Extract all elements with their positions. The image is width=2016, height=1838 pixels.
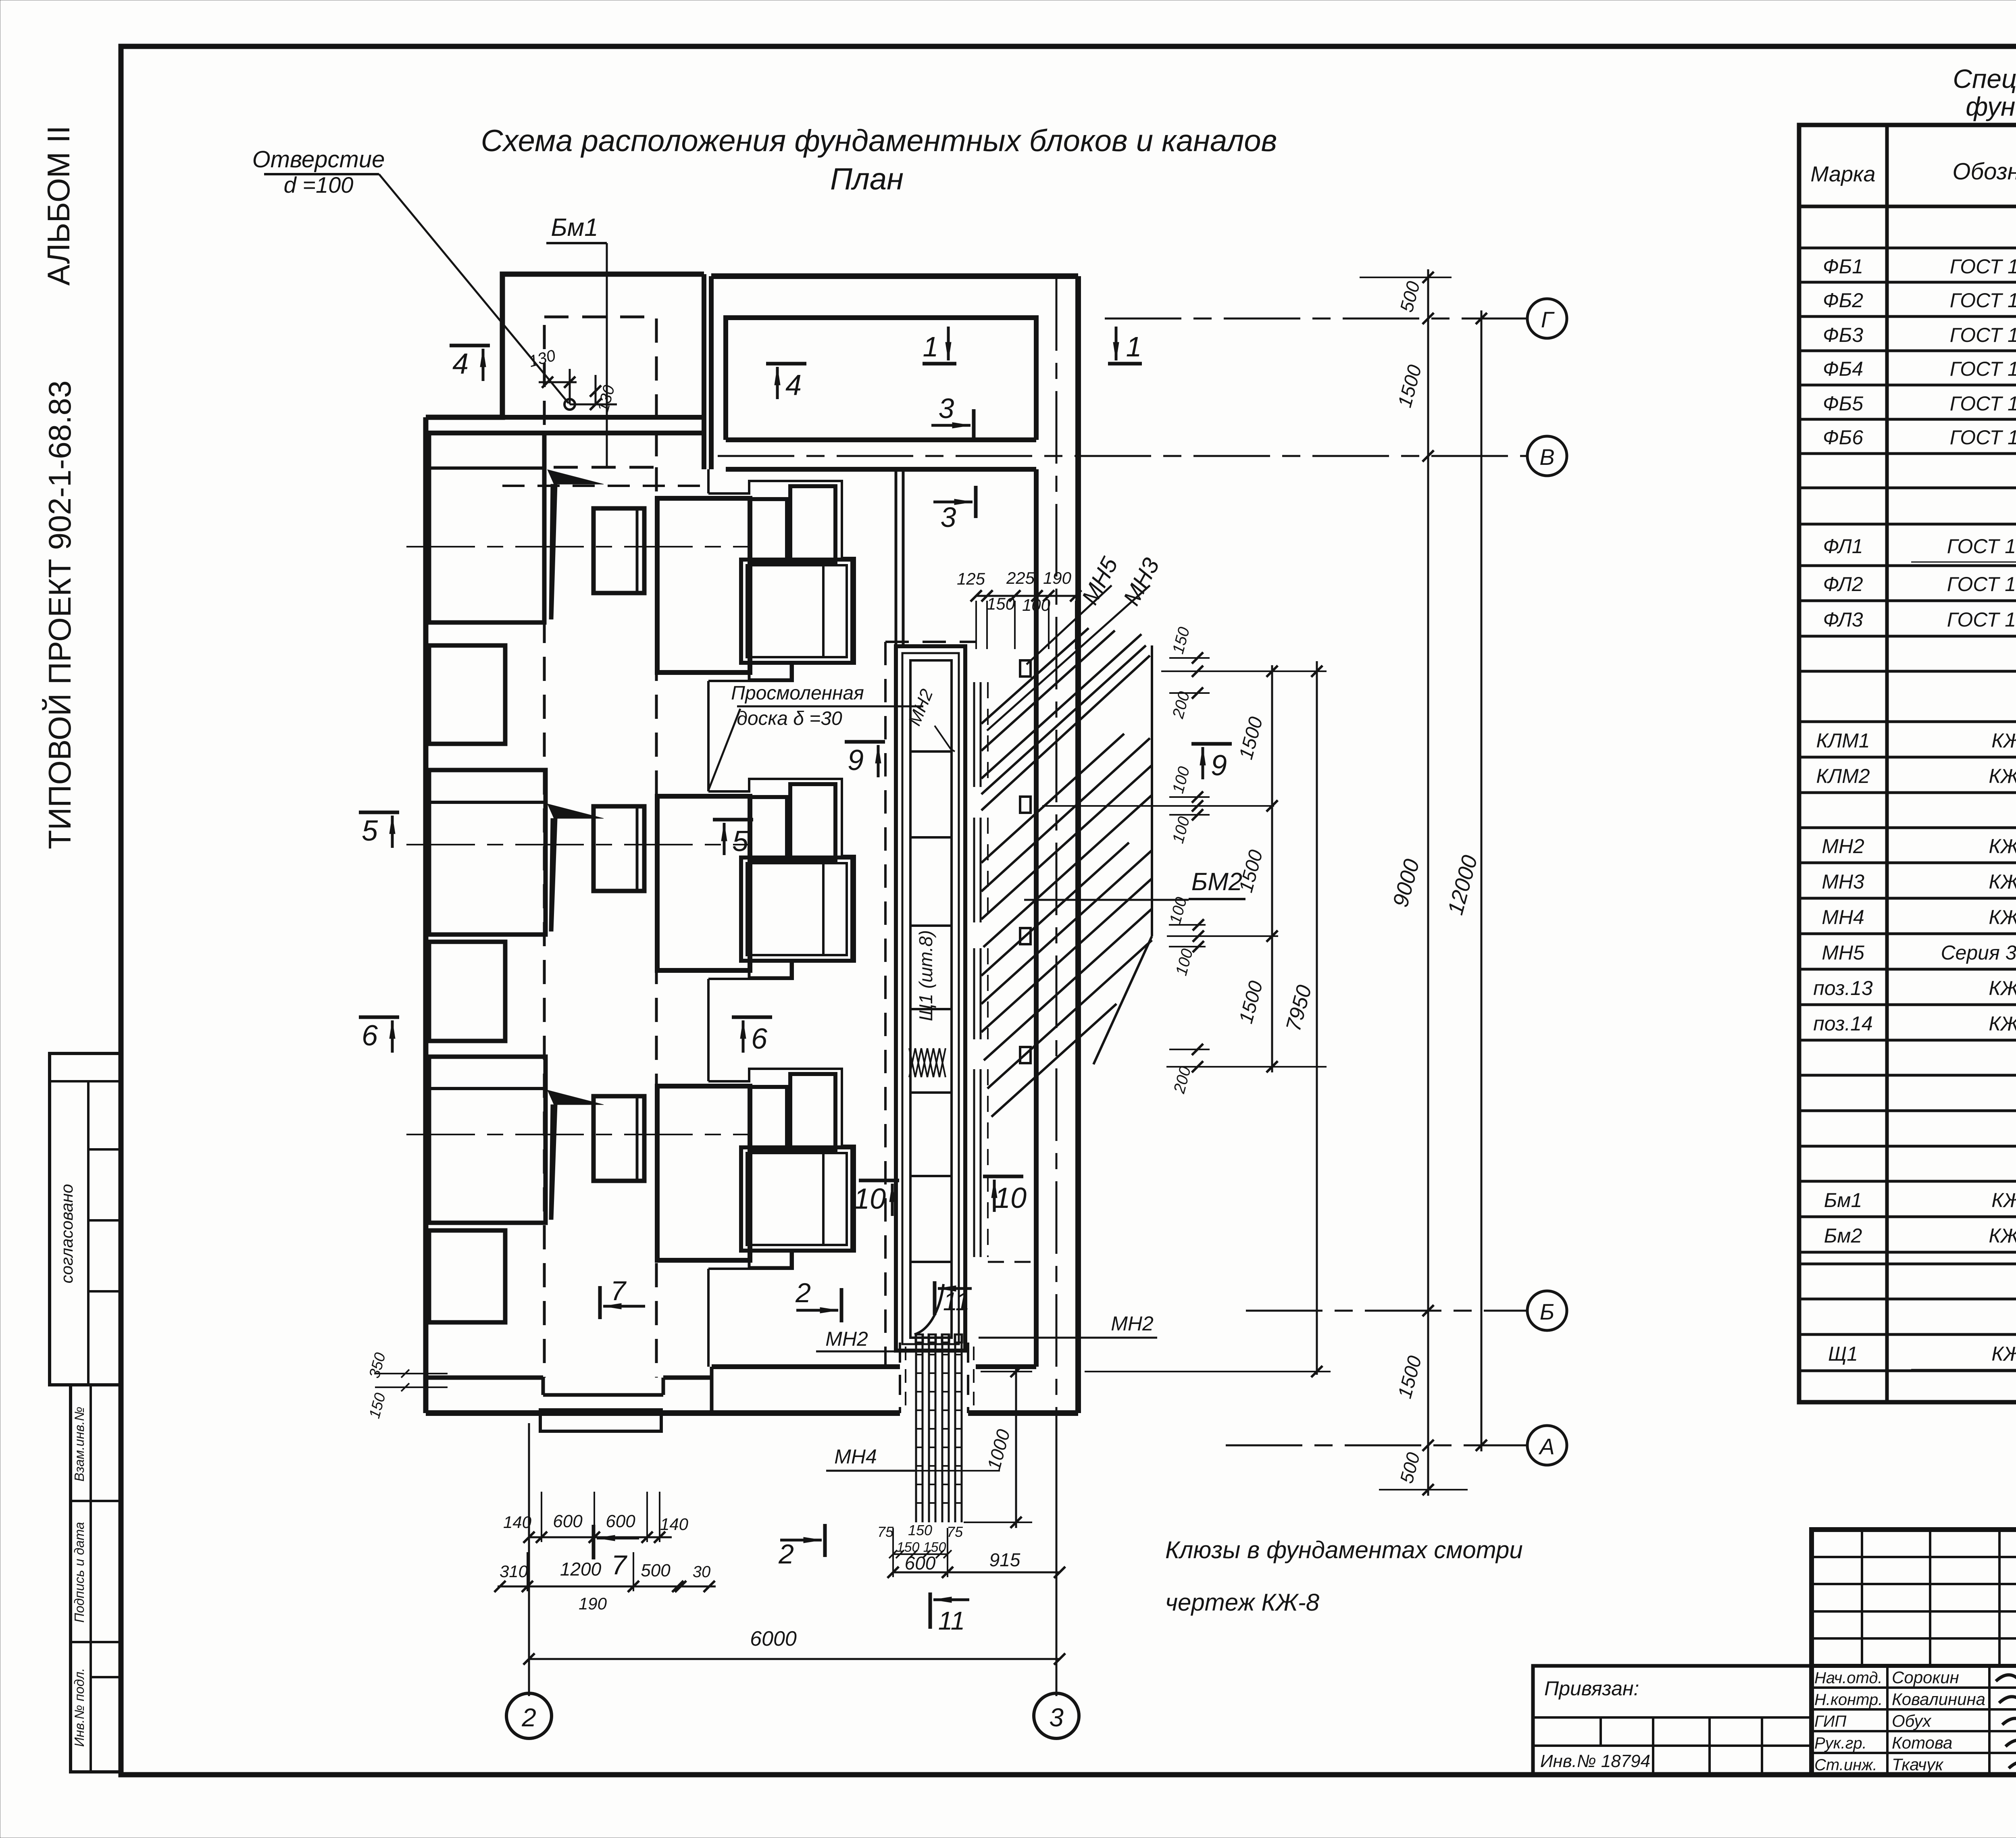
section mark 11 lower (929, 1592, 932, 1629)
axis line B (1246, 1310, 1527, 1312)
svg-text:2: 2 (795, 1278, 811, 1308)
title block upper-left revision grid (1812, 1556, 2016, 1558)
svg-text:75: 75 (877, 1524, 894, 1540)
approval stamp (soglasovano) (50, 1053, 121, 1385)
MN3 callout leader (987, 585, 1150, 731)
section mark 9 (845, 740, 885, 744)
svg-text:А: А (1538, 1434, 1554, 1459)
svg-text:КЛМ1: КЛМ1 (1816, 729, 1870, 752)
svg-text:Отверстие: Отверстие (252, 146, 385, 173)
axis line G (1105, 318, 1527, 320)
hall inner bottom wall (712, 1364, 900, 1369)
svg-text:150: 150 (987, 594, 1015, 613)
svg-text:225: 225 (1006, 568, 1035, 587)
svg-text:КЖ - 19: КЖ - 19 (1989, 870, 2016, 893)
svg-text:КЖ - 19: КЖ - 19 (1989, 1012, 2016, 1035)
svg-text:ГОСТ 13580 - 80: ГОСТ 13580 - 80 (1947, 535, 2016, 558)
svg-text:КЖ -17: КЖ -17 (1991, 1189, 2016, 1211)
small foot block (749, 663, 791, 680)
machine hall inner bottom line (426, 1376, 543, 1380)
svg-text:125: 125 (957, 569, 985, 588)
svg-text:150: 150 (897, 1540, 920, 1555)
axis line 3 (1056, 278, 1058, 1413)
axis line V (718, 455, 1527, 457)
svg-text:ГОСТ 13580 - 80: ГОСТ 13580 - 80 (1947, 573, 2016, 595)
chain 1500x3 (1271, 665, 1273, 1072)
hole symbol (564, 399, 575, 410)
dim 1000 (1015, 1369, 1017, 1528)
svg-text:600: 600 (606, 1511, 635, 1531)
svg-text:2: 2 (521, 1703, 536, 1732)
axis line 2 (528, 1423, 530, 1696)
svg-text:Схема расположения фундамент: Схема расположения фундаментных блоков и… (481, 124, 1277, 158)
svg-text:АЛЬБОМ II: АЛЬБОМ II (41, 125, 76, 285)
section mark 10 (983, 1175, 1023, 1178)
hole position dims 130x130 (569, 369, 571, 404)
svg-text:План: План (830, 162, 904, 196)
bearing block with liner (741, 560, 852, 663)
svg-text:6000: 6000 (750, 1627, 797, 1651)
svg-text:Бм1: Бм1 (1824, 1189, 1862, 1211)
svg-text:КЖ - 19: КЖ - 19 (1989, 835, 2016, 858)
binding table (privyazan) (1533, 1666, 1812, 1775)
svg-text:фундаментных блоков и канало: фундаментных блоков и каналов (1966, 92, 2016, 121)
building outer bottom wall (426, 1410, 900, 1416)
svg-text:ФБ6: ФБ6 (1823, 426, 1863, 449)
svg-text:Рук.гр.: Рук.гр. (1814, 1734, 1867, 1752)
right chain 500/1500/9000/1500/500 (1427, 269, 1429, 1496)
svg-text:Клюзы в фундаментах смотри: Клюзы в фундаментах смотри (1165, 1536, 1523, 1563)
svg-text:ФЛ1: ФЛ1 (1823, 535, 1863, 558)
svg-text:Обух: Обух (1892, 1711, 1932, 1730)
svg-text:600: 600 (905, 1553, 936, 1574)
svg-text:ФБ2: ФБ2 (1823, 289, 1863, 312)
right chain 12000 (1481, 310, 1483, 1451)
machine foundation left block (axis y=2814) (429, 1057, 546, 1223)
svg-text:МН2: МН2 (825, 1328, 868, 1350)
svg-text:Котова: Котова (1892, 1733, 1952, 1752)
NW room bottom wall line (502, 415, 704, 420)
svg-text:2: 2 (778, 1539, 794, 1569)
axis circle B (1527, 1291, 1567, 1330)
svg-text:Нач.отд.: Нач.отд. (1814, 1669, 1883, 1687)
inventory strip (vzam/podpis/inv) (71, 1385, 121, 1772)
axis circle 3 (1034, 1693, 1079, 1738)
hall right inner wall (1034, 469, 1039, 1367)
svg-text:10: 10 (994, 1182, 1027, 1214)
central machine block (657, 498, 750, 672)
formwork wedge (548, 470, 604, 484)
upper right block (790, 486, 835, 562)
svg-text:1200: 1200 (560, 1559, 602, 1580)
svg-text:ФБ1: ФБ1 (1823, 255, 1863, 278)
svg-text:Ст.инж.: Ст.инж. (1814, 1756, 1877, 1774)
machine hall bottom ledge (710, 1367, 714, 1413)
machine hall top wall inner line (426, 431, 704, 435)
formwork wedge (548, 804, 604, 818)
svg-text:ГИП: ГИП (1814, 1713, 1847, 1730)
svg-text:Обозначение: Обозначение (1952, 158, 2016, 185)
svg-text:3: 3 (941, 502, 956, 533)
svg-text:КЛМ2: КЛМ2 (1816, 765, 1870, 787)
machine centre line (406, 844, 748, 845)
svg-text:100: 100 (1022, 595, 1051, 614)
svg-text:Сорокин: Сорокин (1892, 1668, 1959, 1687)
section mark 1 (923, 362, 956, 366)
title block signature rows (1812, 1686, 2016, 1689)
pit edge connectors between groups (707, 469, 710, 493)
section mark 4 (450, 344, 490, 348)
svg-text:140: 140 (503, 1513, 532, 1532)
svg-text:ГОСТ 13579 -78: ГОСТ 13579 -78 (1950, 255, 2016, 278)
small foot block (749, 1251, 791, 1268)
svg-text:ТИПОВОЙ ПРОЕКТ 902-1-68.83: ТИПОВОЙ ПРОЕКТ 902-1-68.83 (42, 381, 77, 849)
specification table grid (1799, 125, 2016, 1402)
duct walls above channel (895, 469, 898, 646)
svg-text:ФЛ2: ФЛ2 (1823, 573, 1863, 595)
section mark 6 (732, 1016, 772, 1019)
upper right block (790, 784, 835, 860)
dashed step at strip bottom (988, 1261, 1032, 1263)
svg-text:ФБ5: ФБ5 (1823, 392, 1863, 415)
channel outer wall (896, 646, 965, 1351)
svg-text:7: 7 (611, 1550, 627, 1580)
dim 600 / 915 (893, 1572, 1060, 1574)
svg-text:Щ1 (шт.8): Щ1 (шт.8) (915, 930, 936, 1021)
dim 150/350 (375, 1373, 448, 1374)
chain 7950 (1316, 661, 1318, 1375)
svg-text:Щ1: Щ1 (1828, 1343, 1858, 1365)
formwork wedge (548, 1090, 604, 1105)
mini dims 75/150 (893, 1553, 948, 1555)
title block outline (1812, 1530, 2016, 1775)
dim chain 140/600/600/140 (529, 1536, 672, 1538)
svg-text:30: 30 (693, 1563, 711, 1581)
svg-text:МН3: МН3 (1822, 870, 1864, 893)
svg-text:КЖ - 17: КЖ - 17 (1989, 1224, 2016, 1247)
machine centre line (406, 1134, 748, 1135)
svg-text:доска δ =30: доска δ =30 (737, 708, 842, 729)
svg-text:11: 11 (938, 1606, 965, 1635)
axis circle V (1527, 436, 1567, 476)
MN5 anchor ports (1020, 660, 1031, 677)
svg-text:Н.контр.: Н.контр. (1814, 1691, 1883, 1709)
title block signatures (squiggles) (1996, 1671, 2016, 1682)
foundation pit edge (708, 1069, 855, 1269)
svg-text:4: 4 (452, 348, 469, 380)
middle pedestal (594, 806, 644, 891)
notch block (750, 1087, 787, 1150)
svg-text:6: 6 (751, 1023, 768, 1055)
svg-text:10: 10 (854, 1183, 886, 1215)
svg-text:1: 1 (923, 331, 939, 362)
bearing block with liner (741, 1147, 852, 1251)
svg-text:МН2: МН2 (1822, 835, 1864, 858)
svg-text:Привязан:: Привязан: (1544, 1677, 1639, 1700)
section mark 1 (1108, 362, 1142, 366)
machine foundation left block (axis y=1356) (429, 433, 544, 622)
MN4 embed strips (915, 1334, 917, 1522)
svg-text:75: 75 (947, 1524, 963, 1540)
svg-text:150: 150 (908, 1522, 932, 1538)
svg-text:140: 140 (660, 1515, 689, 1534)
intermediate wall blocks (429, 645, 505, 744)
machine foundation left block (axis y=2095) (429, 770, 546, 935)
svg-text:КЖ -16: КЖ -16 (1991, 729, 2016, 752)
central machine block (657, 796, 750, 970)
svg-text:5: 5 (362, 815, 378, 847)
section mark 6 (359, 1016, 399, 1019)
foundation foot pad (540, 1410, 661, 1431)
section mark 5 (713, 818, 753, 822)
svg-text:Взам.инв.№: Взам.инв.№ (72, 1407, 87, 1482)
section mark 3 (972, 409, 976, 441)
svg-text:ФБ3: ФБ3 (1823, 324, 1863, 346)
svg-text:600: 600 (553, 1511, 583, 1531)
svg-text:9: 9 (848, 744, 864, 776)
small foot block (749, 961, 791, 978)
svg-text:Просмоленная: Просмоленная (731, 683, 864, 704)
svg-text:БМ2: БМ2 (1191, 868, 1242, 896)
embeds development hatch (981, 628, 1152, 1117)
section mark 5 (359, 811, 399, 814)
svg-text:3: 3 (939, 393, 954, 424)
section mark 4 (766, 362, 806, 366)
svg-text:поз.13: поз.13 (1813, 977, 1873, 999)
svg-text:поз.14: поз.14 (1813, 1012, 1873, 1035)
svg-text:КЖ - 19: КЖ - 19 (1989, 977, 2016, 999)
svg-text:МН4: МН4 (834, 1445, 877, 1468)
notch block (750, 797, 787, 860)
MN5 callout leader (1027, 585, 1112, 664)
NW room outline (426, 274, 704, 417)
underfloor dashed line (502, 485, 710, 487)
svg-text:9: 9 (1211, 749, 1227, 782)
foundation pit edge (708, 779, 855, 979)
svg-text:В: В (1539, 444, 1554, 470)
central machine block (657, 1086, 750, 1260)
axis circle A (1527, 1426, 1567, 1465)
svg-text:МН5: МН5 (1822, 941, 1864, 964)
machine hall left wall (423, 417, 429, 1413)
svg-text:Бм2: Бм2 (1824, 1224, 1862, 1247)
channel inner wall (902, 653, 959, 1344)
svg-text:Инв.№ 18794: Инв.№ 18794 (1540, 1751, 1650, 1771)
beam Bm1 dashed edge left (543, 467, 546, 1378)
svg-text:ФБ4: ФБ4 (1823, 358, 1863, 380)
svg-text:500: 500 (641, 1561, 671, 1580)
hatch patch (909, 1048, 946, 1077)
notch block (750, 499, 787, 562)
channel top dimension chain (976, 595, 1076, 597)
svg-text:КЖ -19: КЖ -19 (1991, 1343, 2016, 1365)
svg-text:Б: Б (1540, 1299, 1554, 1324)
ventilation room inner walls (726, 318, 1036, 440)
svg-text:МН2: МН2 (1111, 1312, 1154, 1335)
svg-text:КЖ - 14: КЖ - 14 (1989, 765, 2016, 787)
svg-text:Г: Г (1541, 307, 1555, 332)
svg-text:ГОСТ 13579 -78: ГОСТ 13579 -78 (1950, 392, 2016, 415)
section mark 9 (1191, 742, 1232, 746)
svg-text:5: 5 (732, 825, 749, 858)
NE block top outer wall (711, 273, 1078, 279)
upper right block (790, 1074, 835, 1150)
section mark 3 (974, 486, 978, 518)
svg-text:6: 6 (362, 1020, 378, 1052)
svg-text:ГОСТ 13579 -78: ГОСТ 13579 -78 (1950, 358, 2016, 380)
svg-text:чертеж КЖ-8: чертеж КЖ-8 (1165, 1589, 1320, 1616)
axis line A (1226, 1445, 1527, 1447)
hatch right envelope (1151, 645, 1153, 936)
NE block right outer wall (1075, 276, 1081, 1413)
svg-text:Инв.№ подл.: Инв.№ подл. (72, 1668, 87, 1747)
middle pedestal (594, 508, 644, 593)
svg-text:915: 915 (989, 1549, 1020, 1570)
dim 6000 (529, 1658, 1060, 1660)
section mark 7 lower (592, 1525, 596, 1559)
svg-text:согласовано: согласовано (57, 1184, 76, 1284)
svg-text:Ткачук: Ткачук (1892, 1755, 1944, 1774)
svg-text:Марка: Марка (1810, 162, 1875, 186)
beam Bm1 dashed outline (544, 317, 656, 467)
svg-text:150: 150 (923, 1540, 946, 1555)
svg-text:7: 7 (610, 1276, 627, 1306)
svg-text:Ковалинина: Ковалинина (1892, 1690, 1985, 1709)
bearing block with liner (741, 858, 852, 961)
beam Bm1 dashed edge right (655, 467, 658, 1378)
section mark 10 (859, 1179, 899, 1182)
svg-text:ГОСТ 13579 -78: ГОСТ 13579 -78 (1950, 289, 2016, 312)
svg-text:КЖ - 19: КЖ - 19 (1989, 906, 2016, 928)
dim chain 310/1200/500/30 (498, 1586, 716, 1588)
axis circle G (1527, 299, 1567, 338)
cable curve in bottom cell (914, 1284, 943, 1334)
svg-text:1: 1 (1126, 331, 1142, 362)
svg-text:ГОСТ 13579 -78: ГОСТ 13579 -78 (1950, 324, 2016, 346)
NW/NE partition wall (702, 274, 706, 469)
svg-text:d =100: d =100 (284, 172, 354, 198)
section mark 7 upper (598, 1286, 602, 1319)
port level extension dims (1169, 657, 1210, 659)
foundation pit edge (708, 481, 855, 681)
middle pedestal (594, 1096, 644, 1181)
svg-text:3: 3 (1049, 1703, 1064, 1732)
svg-text:ФЛ3: ФЛ3 (1823, 608, 1863, 631)
svg-text:МН4: МН4 (1822, 906, 1864, 928)
svg-text:Подпись и дата: Подпись и дата (72, 1522, 87, 1623)
svg-text:4: 4 (785, 369, 802, 402)
svg-text:Серия 3.400-6 /76: Серия 3.400-6 /76 (1941, 941, 2016, 964)
section mark 11 upper (933, 1281, 937, 1315)
floor edge dashed left of channel (884, 642, 887, 1366)
svg-text:310: 310 (500, 1562, 528, 1581)
shield cells (910, 660, 952, 1338)
bottom channel dashed walls (899, 1343, 901, 1413)
axis circle 2 (506, 1693, 552, 1738)
MN3 embed strip (973, 682, 975, 787)
svg-text:ГОСТ 13579 -78: ГОСТ 13579 -78 (1950, 426, 2016, 449)
svg-text:Бм1: Бм1 (551, 214, 598, 241)
svg-text:Спецификация к схеме располо: Спецификация к схеме расположения (1953, 64, 2016, 94)
svg-text:ГОСТ 13580 - 80: ГОСТ 13580 - 80 (1947, 608, 2016, 631)
machine centre line (406, 546, 748, 547)
svg-text:190: 190 (579, 1594, 607, 1613)
hall top inner wall line (726, 467, 1036, 472)
